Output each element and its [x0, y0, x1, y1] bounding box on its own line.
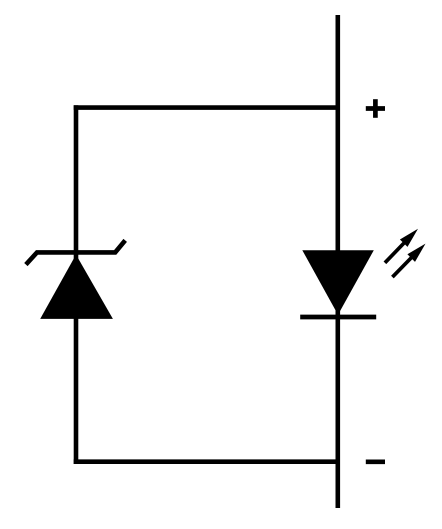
LED D (right branch) [300, 250, 376, 317]
wire: left vertical segment [74, 105, 79, 464]
node + (positive terminal label) [366, 99, 385, 118]
LED light arrow 1 [385, 229, 418, 263]
wire: positive rail (right vertical) [335, 15, 340, 508]
wire: bottom horizontal segment [74, 459, 338, 464]
zener diode (left branch) [26, 240, 125, 319]
node - (negative terminal label) [366, 459, 385, 464]
wire: top horizontal segment [74, 105, 338, 110]
LED light arrow 2 [392, 244, 425, 278]
